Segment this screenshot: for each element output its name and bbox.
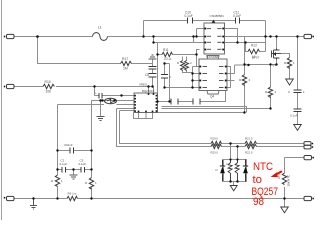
ground arrow NTC (281, 207, 289, 213)
inductor L1 (93, 33, 108, 41)
connector J7 right y157.6 (304, 156, 312, 160)
annotation red arrow (271, 171, 282, 177)
wire mid row y86.6 (14, 86, 154, 88)
wire VIN rail y36 (14, 36, 305, 38)
svg-text:x1: x1 (169, 57, 173, 61)
Q4 internal pin names smudge (203, 66, 224, 88)
connector J6 right y146 (304, 145, 311, 149)
U3 internal pin names smudge (207, 28, 222, 50)
capacitor C11 (236, 18, 240, 24)
resistor R16 (x270.5 column) (268, 87, 272, 98)
wire left column x169.5 (165, 64, 170, 102)
resistor R13b vertical (185, 61, 189, 71)
svg-text:BTST: BTST (252, 56, 260, 60)
svg-text:to: to (253, 174, 263, 186)
connector J2 mid left (7, 84, 15, 88)
pin tick J5 (312, 143, 313, 145)
capacitor C15 on x297.8 (294, 109, 302, 112)
Q4 top tab (207, 56, 219, 60)
wire U2 zener row to x57 (58, 105, 134, 151)
svg-text:R20 0: R20 0 (211, 151, 219, 155)
pin tick J7 (312, 157, 314, 159)
resistor R9 (sense, bottom rail) (67, 196, 78, 200)
svg-text:0.1uF: 0.1uF (60, 162, 68, 166)
connector J1 VIN left (7, 34, 15, 38)
capacitor C10 (188, 18, 193, 24)
wire stub from IN junction down to y63.6 (38, 37, 153, 64)
resistor R15 (gate pulldown) (287, 58, 291, 69)
wire loop rail lower (117, 109, 304, 147)
pin squares U2 bottom (138, 111, 154, 113)
wire U2 bottom pin U-loop (134, 113, 153, 119)
resistor R13a vertical (181, 61, 185, 71)
power block U3 (top FET pair) (204, 14, 225, 59)
ground mid (under cap row) (70, 175, 78, 179)
svg-text:0.1uF: 0.1uF (233, 14, 241, 18)
resistor R11 (162, 52, 173, 56)
wire y101.3 row (158, 89, 226, 102)
pin tick J4 (312, 36, 314, 38)
wire top rail left corner (143, 21, 145, 37)
connector J5 right y143 (304, 142, 311, 146)
svg-text:R19 0: R19 0 (211, 137, 219, 141)
svg-text:BQ24610: BQ24610 (142, 89, 155, 93)
wire loop rail stub into U2 (117, 109, 134, 111)
wire IC2 left pins to x192.5 (193, 67, 199, 88)
wire Q1 source to y64.8 (245, 60, 277, 65)
wire resistor pair feeds (183, 57, 193, 73)
svg-text:1uF: 1uF (68, 143, 73, 147)
resistor pair P2 lower (245, 144, 256, 148)
U3 VIN arrow (212, 20, 216, 23)
Q4 bottom tab (207, 91, 219, 95)
wire x153.7 link rail to y42.5 (154, 37, 205, 43)
wire U2 pin1 cap link (95, 87, 134, 96)
TVS diode D2 (220, 160, 225, 182)
TVS zener Z1 diagonal (228, 160, 232, 182)
wire x244.5 column (158, 37, 245, 113)
wire cap row y150 (58, 151, 92, 168)
wire x57 column (57, 170, 59, 199)
pin tick J2 (4, 86, 6, 88)
capacitor at U2 pin1 (99, 93, 102, 99)
svg-text:10: 10 (164, 57, 168, 61)
wire R15 bottom to gnd arrow (289, 67, 291, 80)
ground (bars) at top of C4 column (149, 55, 157, 59)
resistor pair P2 upper (245, 141, 256, 145)
svg-text:0.1uF: 0.1uF (79, 162, 87, 166)
wire U2 pin2 to x91 (92, 100, 134, 102)
NTC thermistor RT1 (282, 173, 286, 184)
svg-text:R12: R12 (251, 44, 257, 48)
wire NTC net (285, 158, 304, 208)
wire y108.6 long (162, 108, 271, 110)
wire TVS risers (231, 144, 238, 160)
transistor Q1 (272, 49, 282, 60)
capacitor C14 on x297.8 (294, 90, 302, 93)
wire loop rail upper (120, 111, 304, 144)
svg-text:Q4: Q4 (210, 95, 214, 99)
wire R12 links (246, 37, 266, 52)
pin squares U2 left (134, 95, 136, 112)
ground arrow TVS (230, 186, 237, 191)
pin squares U3 right (222, 28, 224, 51)
resistor pair P1 upper (loop rails) (211, 141, 222, 145)
resistor R14 (x244.5 column) (242, 75, 246, 86)
svg-text:R9 1m: R9 1m (68, 192, 77, 196)
wire right pin risers of U3 (225, 29, 266, 43)
connector J8 right y198 (304, 196, 312, 200)
wire x157.5 column down (157, 55, 159, 102)
svg-text:NTC: NTC (253, 161, 273, 173)
connector pin ticks (4, 36, 314, 200)
capacitor C6 (70, 148, 74, 154)
pin squares U3 left (204, 28, 206, 51)
pin squares Q4 right (225, 66, 227, 89)
connector J4 right y36 (304, 34, 312, 38)
wire IC1 top arrow feed (213, 21, 215, 23)
resistor pair P1 lower (211, 144, 222, 148)
wire TVS gnd stem (233, 182, 235, 186)
capacitor on x164.5 column (161, 75, 168, 79)
power block Q4 (bottom FET pair) (199, 55, 227, 98)
svg-text:1M: 1M (123, 67, 128, 71)
pin tick J1 (4, 36, 6, 38)
capacitor C12 (171, 99, 178, 105)
wire top rail right corner (265, 21, 267, 52)
wire x297.8 column (297, 37, 299, 125)
wire y106 long (162, 107, 247, 113)
wire top rail y20.5 (144, 20, 266, 22)
connector J3 bottom left (7, 196, 15, 200)
wire U2 gnd stem from zener row (100, 101, 102, 117)
ground arrow under R15 (286, 79, 294, 85)
wire x91 column (91, 101, 93, 199)
svg-text:R21 0: R21 0 (245, 137, 253, 141)
svg-text:98: 98 (253, 196, 264, 208)
capacitor C3 (row y169.5 right) (81, 167, 85, 173)
svg-text:R22 0: R22 0 (245, 151, 253, 155)
resistor R8 (x91 column) (89, 178, 93, 189)
svg-text:VREG: VREG (139, 83, 148, 87)
wire stubs above U2 (149, 87, 154, 93)
resistor R12 (248, 49, 259, 53)
svg-text:C8: C8 (145, 73, 149, 77)
page border left (1, 0, 3, 220)
resistor R17 (121, 61, 132, 65)
TVS zener Z2 diagonal (235, 160, 239, 182)
ground at bottom-left connector (30, 199, 37, 210)
capacitor C13 (193, 99, 200, 105)
resistor R10 (43, 84, 54, 88)
capacitor C8 (149, 74, 157, 78)
svg-text:R10: R10 (45, 80, 51, 84)
svg-text:0.1uF: 0.1uF (185, 14, 193, 18)
wire Q1 drain riser (276, 37, 278, 49)
TVS array frame (224, 160, 247, 182)
svg-text:R11: R11 (163, 48, 169, 52)
pin squares U2 top (148, 93, 155, 95)
capacitor C4 (149, 67, 157, 70)
svg-text:+: + (95, 91, 97, 95)
pin squares Q4 left (199, 66, 201, 89)
TVS diode D3 (243, 160, 248, 182)
wire cap column x152.4 (152, 59, 154, 87)
svg-text:R17: R17 (122, 57, 128, 61)
svg-text:CSD88584: CSD88584 (210, 14, 225, 18)
wire x270.5 column (270, 65, 272, 109)
wire bottom rail y198 (14, 198, 305, 200)
pin tick J3 (4, 197, 6, 199)
svg-text:L1: L1 (98, 26, 102, 30)
zener D5 (105, 98, 117, 104)
wire left pin risers of U3 (194, 29, 205, 43)
power arrow down x297.8 (294, 125, 302, 131)
svg-text:10k: 10k (46, 90, 52, 94)
svg-text:CSD88: CSD88 (209, 55, 218, 59)
wire IC2 right pins nest (228, 65, 249, 88)
svg-text:D: D (216, 168, 218, 172)
pin tick J8 (312, 198, 314, 200)
capacitor C2 (row y169.5 left) (62, 167, 66, 173)
wire cap row y169.5 (58, 151, 92, 170)
wire x157.5 to y112.5 (157, 102, 159, 113)
resistor R7 (x57 column) (55, 175, 59, 186)
pin squares U2 right (156, 95, 158, 112)
wire mid gnd stem y169-175 (73, 170, 75, 176)
pin tick J6 (312, 146, 313, 148)
wire gate net to R15 (281, 54, 290, 58)
controller U2 (134, 89, 158, 113)
wire R11 link (158, 43, 200, 67)
ground at U2 lower-left (97, 117, 105, 121)
wire left column x164.5 (165, 64, 193, 88)
svg-text:0.1uF: 0.1uF (290, 114, 298, 118)
svg-text:10k NTC: 10k NTC (287, 174, 291, 187)
